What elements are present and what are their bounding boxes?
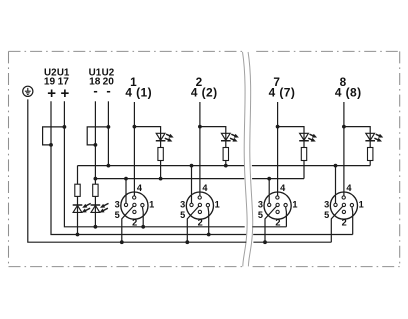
wire U1- (terminal 18) down into indicator branch	[94, 101, 96, 227]
svg-text:2: 2	[275, 217, 280, 227]
pin 4 of connector X7	[276, 196, 279, 199]
svg-text:5: 5	[180, 210, 185, 220]
pin 2 of connector X7	[276, 210, 279, 213]
junction channel 7 signal to LED branch	[276, 125, 280, 129]
junction jumper to U2- wire	[107, 125, 111, 129]
wire channel 2 LED branch	[200, 127, 226, 166]
wire channel 1 LED branch	[134, 127, 160, 179]
resistor power indicator U1	[93, 184, 98, 196]
svg-text:5: 5	[115, 210, 120, 220]
LED U1 emission arrow 2	[100, 208, 108, 212]
wire U2- bus (line A)	[78, 165, 245, 167]
svg-text:3: 3	[115, 200, 120, 210]
wire channel 2 pin 1 to plus bus	[207, 207, 210, 235]
junction channel 1 pin 1	[141, 225, 145, 229]
junction branch to U1+ bus	[94, 225, 98, 229]
svg-text:1: 1	[215, 200, 220, 210]
pin 5 of connector X7	[276, 203, 279, 206]
pin 3 of connector X2	[190, 203, 193, 206]
pin 4 of connector X1	[133, 196, 136, 199]
svg-text:1: 1	[149, 200, 154, 210]
connector X1 M12 socket	[121, 192, 148, 219]
wire PE bus right of break	[253, 241, 331, 243]
wire U1- bus right of break	[252, 178, 304, 180]
pin 1 of connector X7	[284, 203, 287, 206]
pin 5 of connector X8	[342, 203, 345, 206]
pin 4 of connector X8	[342, 196, 345, 199]
svg-text:3: 3	[258, 200, 263, 210]
junction channel 2 pin 3	[190, 164, 194, 168]
resistor power indicator U2	[75, 184, 80, 196]
svg-text:2: 2	[132, 217, 137, 227]
wire PE bus from ground terminal	[28, 99, 247, 242]
svg-text:+: +	[47, 85, 56, 102]
wire channel 8 LED branch	[344, 127, 370, 166]
svg-text:-: -	[93, 83, 97, 98]
pin 3 of connector X7	[268, 203, 271, 206]
resistor channel 1 LED series	[158, 148, 163, 161]
wire U1- bus (line B)	[95, 178, 244, 180]
svg-text:1: 1	[292, 200, 297, 210]
LED channel 7 status (yellow)	[300, 133, 309, 140]
junction channel 1 pin 3	[124, 177, 128, 181]
wire U2+ bus right of break	[253, 234, 353, 236]
ground PE terminal symbol	[23, 86, 33, 96]
svg-text:4: 4	[335, 86, 342, 100]
junction channel 1 pin 5	[120, 240, 124, 244]
svg-text:4: 4	[191, 86, 198, 100]
wire channel 2 pin 3 to minus bus	[191, 166, 193, 204]
pin 5 of connector X1	[133, 203, 136, 206]
wire channel 8 pin 5 to PE bus	[331, 206, 343, 242]
resistor channel 2 LED series	[223, 148, 228, 161]
svg-text:2: 2	[342, 217, 347, 227]
svg-text:2: 2	[198, 217, 203, 227]
pin 3 of connector X8	[334, 203, 337, 206]
junction channel 2 pin 1	[207, 233, 211, 237]
junction channel 7 pin 3	[267, 177, 271, 181]
LED power indicator U2 (green)	[73, 204, 83, 206]
LED channel 8 status (yellow)	[366, 133, 375, 140]
connector X7 M12 socket	[264, 192, 291, 219]
svg-text:(7): (7)	[279, 86, 295, 100]
wire U2- bus right of break	[252, 165, 370, 167]
wire channel 7 pin 1 to plus bus	[285, 207, 288, 227]
junction jumper to U1+ wire	[63, 125, 67, 129]
junction U2- to U2- bus	[107, 164, 111, 168]
svg-text:3: 3	[180, 200, 185, 210]
wire U1+ supply bus (terminal 17)	[64, 101, 244, 227]
junction channel 7 pin 5	[263, 240, 267, 244]
wire channel 7 pin 5 to PE bus	[265, 206, 277, 242]
svg-text:(1): (1)	[136, 86, 152, 100]
svg-text:+: +	[61, 85, 70, 102]
svg-text:4: 4	[269, 86, 276, 100]
wire U2- (terminal 20) down to U2- bus	[107, 101, 109, 165]
wire channel 1 pin 3 to minus bus	[125, 179, 127, 204]
wire channel 8 signal from terminal to pin 4	[343, 102, 345, 196]
LED power indicator U1 (green)	[91, 204, 101, 206]
wire channel 7 pin 3 to minus bus	[268, 179, 270, 204]
connector X2 M12 socket	[186, 192, 213, 219]
junction branch to U2+ bus	[76, 233, 80, 237]
svg-text:4: 4	[202, 183, 208, 193]
pin 2 of connector X2	[198, 210, 201, 213]
LED U2 emission arrow 2	[82, 208, 90, 212]
wire channel 8 pin 3 to minus bus	[335, 166, 337, 204]
LED channel 1 status (yellow)	[156, 133, 165, 140]
resistor channel 7 LED series	[301, 148, 306, 161]
junction channel 1 signal to LED branch	[133, 125, 137, 129]
wire channel 7 signal from terminal to pin 4	[277, 102, 279, 196]
wire channel 1 pin 1 to plus bus	[141, 207, 144, 227]
LED channel 7 emission arrow 2	[308, 138, 315, 141]
wire channel 8 pin 1 to plus bus	[351, 207, 354, 235]
wire channel 7 LED branch	[278, 127, 304, 179]
svg-text:4: 4	[346, 183, 352, 193]
wire break tear line right	[248, 52, 253, 266]
LED channel 2 status (yellow)	[221, 133, 230, 140]
svg-text:-: -	[106, 83, 110, 98]
svg-text:4: 4	[125, 86, 132, 100]
jumper bridge between + terminals 19/17	[43, 127, 65, 145]
wire channel 2 pin 5 to PE bus	[187, 206, 199, 242]
jumper bridge between - terminals 18/20	[87, 127, 108, 145]
svg-text:(8): (8)	[346, 86, 362, 100]
junction channel 2 branch to bus	[224, 164, 228, 168]
junction channel 2 pin 5	[185, 240, 189, 244]
junction jumper to U1- wire	[94, 143, 98, 147]
LED channel 8 emission arrow 2	[374, 138, 381, 141]
junction channel 8 pin 3	[334, 164, 338, 168]
wire U2+ supply bus (terminal 19)	[51, 101, 246, 234]
junction channel 8 signal to LED branch	[342, 125, 346, 129]
wire channel 1 pin 5 to PE bus	[122, 206, 134, 242]
connector X8 M12 socket	[330, 192, 357, 219]
pin 1 of connector X2	[206, 203, 209, 206]
svg-text:4: 4	[137, 183, 143, 193]
pin 3 of connector X1	[124, 203, 127, 206]
svg-text:5: 5	[258, 210, 263, 220]
pin 1 of connector X8	[350, 203, 353, 206]
junction U1- to U1- bus	[94, 177, 98, 181]
junction jumper to U2+ wire	[49, 143, 53, 147]
svg-text:1: 1	[359, 200, 364, 210]
wire channel 2 signal from terminal to pin 4	[199, 102, 201, 196]
wire break tear line left	[243, 52, 248, 266]
junction channel 1 branch to bus	[159, 177, 163, 181]
pin 1 of connector X1	[141, 203, 144, 206]
LED channel 1 emission arrow 2	[165, 138, 172, 141]
junction channel 2 signal to LED branch	[198, 125, 202, 129]
svg-text:5: 5	[324, 210, 329, 220]
pin 2 of connector X8	[342, 210, 345, 213]
svg-text:3: 3	[324, 200, 329, 210]
wire U1+ bus right of break	[252, 226, 286, 228]
svg-text:4: 4	[280, 183, 286, 193]
LED channel 2 emission arrow 2	[230, 138, 237, 141]
pin 5 of connector X2	[198, 203, 201, 206]
resistor channel 8 LED series	[368, 148, 373, 161]
wire channel 1 signal from terminal to pin 4	[133, 102, 135, 196]
svg-text:(2): (2)	[202, 86, 218, 100]
pin 2 of connector X1	[133, 210, 136, 213]
pin 4 of connector X2	[198, 196, 201, 199]
wire power indicator branch U2	[77, 166, 79, 235]
